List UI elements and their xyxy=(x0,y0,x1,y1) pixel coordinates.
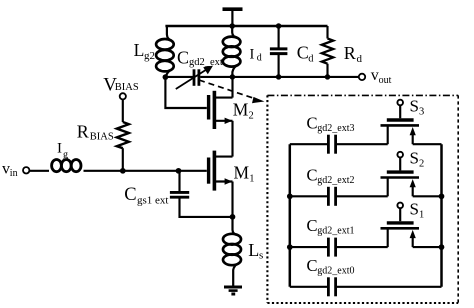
node left rail row ext1 xyxy=(287,244,293,250)
svg-text:gd2_ext3: gd2_ext3 xyxy=(317,123,354,134)
capacitor Cgs1_ext xyxy=(170,171,233,217)
svg-text:1: 1 xyxy=(419,209,424,220)
transistor M1 xyxy=(209,151,233,217)
label Lg2 xyxy=(134,40,155,62)
svg-text:d: d xyxy=(257,52,262,63)
svg-text:g2: g2 xyxy=(144,50,155,62)
wire VDD rail xyxy=(165,25,327,28)
wire output line (drain node to vout) xyxy=(200,76,359,78)
svg-text:C: C xyxy=(124,185,136,205)
svg-text:R: R xyxy=(344,43,356,63)
svg-text:C: C xyxy=(307,216,318,235)
svg-text:L: L xyxy=(248,240,259,260)
node VDD stem junction xyxy=(229,23,235,29)
svg-text:gd2_ext: gd2_ext xyxy=(189,57,223,68)
node right rail row ext1 xyxy=(439,244,445,250)
svg-text:g: g xyxy=(63,150,68,161)
switch S3 xyxy=(381,100,442,145)
dashed arrow from Cgd2_ext to cap bank xyxy=(199,80,265,103)
svg-text:out: out xyxy=(379,75,392,86)
svg-text:gd2_ext1: gd2_ext1 xyxy=(317,226,354,237)
svg-text:C: C xyxy=(177,48,189,68)
terminal VBIAS xyxy=(120,93,126,99)
label Id xyxy=(250,47,262,64)
svg-text:I: I xyxy=(57,141,62,157)
switch S1 xyxy=(381,203,442,248)
terminal vin xyxy=(23,167,29,173)
label S3 xyxy=(410,97,425,118)
node M1 source / Ls xyxy=(230,214,236,220)
label Cgd2_ext3 xyxy=(307,113,355,134)
svg-text:S: S xyxy=(410,97,419,116)
svg-text:M: M xyxy=(234,163,250,183)
svg-text:C: C xyxy=(307,256,318,275)
svg-text:gd2_ext0: gd2_ext0 xyxy=(317,265,354,276)
svg-text:S: S xyxy=(410,199,419,218)
wire node A to variable cap xyxy=(165,76,193,78)
inductor Ls xyxy=(223,217,241,287)
svg-text:2: 2 xyxy=(419,159,424,170)
capacitor Cd xyxy=(270,26,288,77)
node left rail row ext2 xyxy=(287,193,293,199)
label Cgd2_ext0 xyxy=(307,256,355,277)
svg-text:C: C xyxy=(307,165,318,184)
node right rail row ext2 xyxy=(439,193,445,199)
switch S2 xyxy=(381,152,442,197)
svg-text:gd2_ext2: gd2_ext2 xyxy=(317,175,354,186)
node Cgs1 / input wire xyxy=(176,168,182,174)
svg-text:v: v xyxy=(2,161,10,178)
wire right rail of cap bank xyxy=(440,144,443,287)
svg-text:2: 2 xyxy=(249,111,254,122)
capacitor Cgd2_ext0 xyxy=(290,277,442,296)
label vin xyxy=(2,161,18,180)
node A (Lg2 / Cgd2_ext / M2 gate) xyxy=(163,74,169,80)
capacitor Cgd2_ext3 xyxy=(290,135,388,154)
svg-text:BIAS: BIAS xyxy=(90,132,114,143)
svg-text:BIAS: BIAS xyxy=(115,82,139,93)
svg-text:in: in xyxy=(10,168,18,179)
svg-text:v: v xyxy=(371,67,379,84)
label Cgs1 ext xyxy=(124,185,168,207)
svg-text:S: S xyxy=(410,149,419,168)
svg-text:3: 3 xyxy=(419,107,424,118)
label RBIAS xyxy=(77,122,114,143)
svg-text:s: s xyxy=(259,250,263,262)
svg-text:M: M xyxy=(233,100,249,120)
label Cgd2_ext1 xyxy=(307,216,355,237)
svg-text:d: d xyxy=(308,53,314,64)
capacitor Cgd2_ext1 xyxy=(290,238,388,257)
node M2 drain / Ld xyxy=(230,74,236,80)
label Ig xyxy=(57,141,68,161)
terminal vout xyxy=(359,74,365,80)
label M1 xyxy=(234,163,255,185)
cap bank box (dashed) xyxy=(267,95,458,303)
label Ls xyxy=(248,240,263,262)
capacitor Cgd2_ext2 xyxy=(290,187,388,206)
label Cd xyxy=(297,42,315,64)
resistor Rd xyxy=(322,26,333,77)
power supply VDD bar xyxy=(223,9,243,26)
node Cd bottom xyxy=(276,74,282,80)
ground xyxy=(224,287,242,294)
label S2 xyxy=(410,149,425,170)
node Cd top xyxy=(276,23,282,29)
inductor Lg xyxy=(52,160,81,172)
label Rd xyxy=(344,43,363,65)
label M2 xyxy=(233,100,254,122)
inductor Lg2 xyxy=(156,26,174,77)
svg-text:d: d xyxy=(357,53,363,65)
transistor M2 xyxy=(209,77,233,157)
svg-text:I: I xyxy=(250,47,255,63)
svg-text:R: R xyxy=(77,122,89,142)
label vout xyxy=(371,67,392,86)
wire vin to Lg xyxy=(29,170,49,172)
wire M2 gate (node A down and right) xyxy=(165,77,206,108)
wire input line to M1 gate xyxy=(84,170,207,172)
svg-text:C: C xyxy=(297,42,309,62)
node RBIAS / input wire xyxy=(120,168,126,174)
node Rd bottom xyxy=(325,74,331,80)
capacitor Cgd2_ext (variable) xyxy=(176,66,213,89)
svg-text:L: L xyxy=(134,40,145,60)
inductor Ld xyxy=(223,26,241,77)
wire left rail of cap bank xyxy=(289,144,292,287)
label VBIAS xyxy=(103,74,139,95)
resistor RBIAS xyxy=(117,99,129,170)
label Cgd2_ext2 xyxy=(307,165,355,186)
svg-text:gs1 ext: gs1 ext xyxy=(137,195,168,207)
svg-text:1: 1 xyxy=(249,174,254,185)
label Cgd2_ext xyxy=(177,48,223,68)
label S1 xyxy=(410,199,425,220)
svg-text:C: C xyxy=(307,113,318,132)
